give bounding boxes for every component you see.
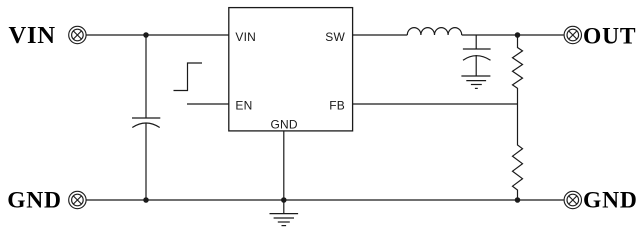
svg-text:GND: GND bbox=[7, 188, 62, 214]
svg-text:OUT: OUT bbox=[583, 23, 636, 49]
svg-text:EN: EN bbox=[235, 99, 252, 113]
svg-text:FB: FB bbox=[329, 99, 345, 113]
svg-text:VIN: VIN bbox=[235, 30, 256, 44]
svg-text:SW: SW bbox=[325, 30, 345, 44]
svg-text:GND: GND bbox=[270, 118, 297, 132]
svg-text:VIN: VIN bbox=[9, 22, 56, 49]
svg-text:GND: GND bbox=[583, 188, 638, 214]
